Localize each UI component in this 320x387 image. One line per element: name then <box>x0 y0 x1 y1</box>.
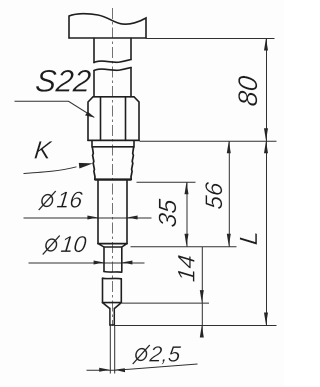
svg-text:16: 16 <box>55 187 84 213</box>
svg-text:56: 56 <box>201 180 228 210</box>
svg-text:2,5: 2,5 <box>147 342 182 367</box>
svg-text:S22: S22 <box>34 64 93 99</box>
svg-text:K: K <box>33 137 54 165</box>
svg-text:35: 35 <box>154 198 182 229</box>
svg-text:L: L <box>235 229 263 246</box>
svg-text:10: 10 <box>59 231 88 257</box>
svg-text:14: 14 <box>174 254 201 284</box>
svg-text:80: 80 <box>233 74 263 107</box>
